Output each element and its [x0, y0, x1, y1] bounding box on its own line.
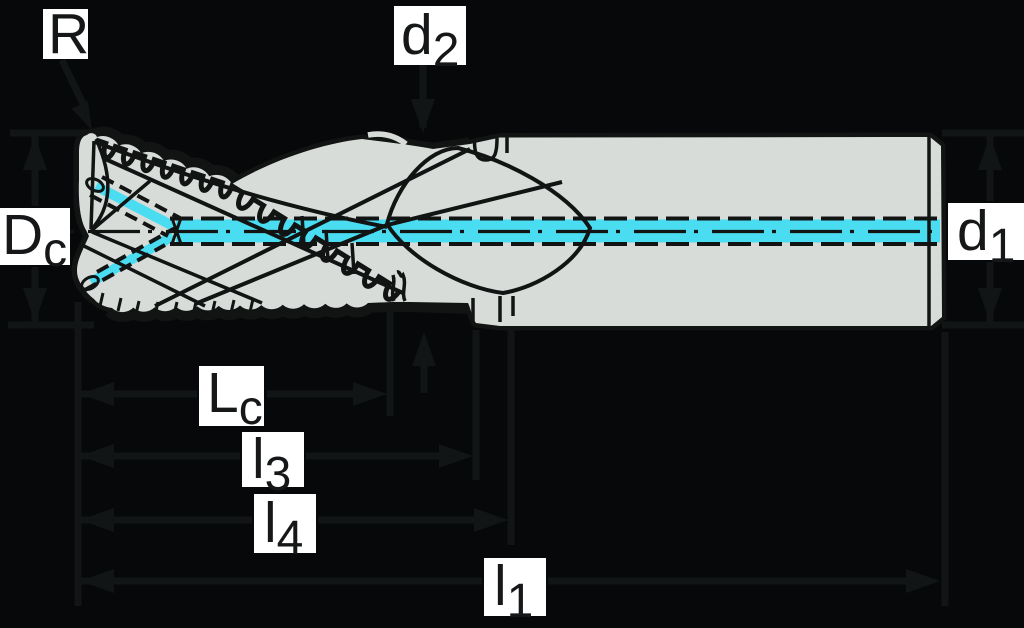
svg-text:R: R [48, 2, 89, 66]
label Dc [0, 208, 70, 265]
thick edge band neck dip [395, 144, 470, 150]
dimension d1 vertical arrows [987, 136, 994, 201]
neck relief groove top [475, 138, 498, 160]
serrated cutting edge garland [96, 140, 400, 299]
end gash line up [92, 181, 150, 230]
coolant bore tip mark [172, 218, 181, 244]
serration tooth tails [302, 216, 304, 245]
label Lc [199, 366, 264, 426]
dimension Dc vertical arrows [32, 136, 39, 206]
label d1 [948, 203, 1024, 260]
last serration groove squiggles [393, 275, 394, 301]
extension tick top-left for Dc [10, 130, 102, 137]
dimension line Lc [80, 391, 197, 398]
coolant hole ellipse lower [79, 274, 100, 292]
end mill body fill [77, 133, 942, 326]
shank end chamfer line [927, 136, 931, 327]
extension tick bottom-right for d1 [942, 322, 1024, 329]
dashed outline coolant channel lower [97, 227, 177, 272]
dimension line l4 [80, 517, 252, 524]
thick edge band top serration [96, 137, 232, 184]
end tooth bowed face line [91, 139, 108, 230]
extension line right (shank end) [942, 332, 949, 606]
coolant hole ellipse upper [84, 176, 105, 194]
label l3 [242, 432, 304, 487]
neck relief groove bottom [471, 298, 475, 324]
coolant channel upper (cyan) [96, 186, 173, 226]
dashed outline coolant channel upper [102, 177, 180, 218]
end gash line down long [92, 232, 262, 303]
extension line l4 [508, 330, 515, 545]
leader arrow for R [62, 60, 84, 106]
flute edge sliver above neck [368, 134, 406, 144]
dashed coolant bore bottom line [170, 242, 940, 246]
flute helix line rising long [155, 149, 470, 306]
end tooth face line [91, 141, 94, 229]
end gash line down short [84, 246, 205, 306]
flute helix line rising to runout chord [195, 182, 562, 304]
end mill body outline [77, 133, 942, 326]
coolant bore band (cyan) [176, 220, 940, 243]
coolant channel lower (cyan) [91, 236, 173, 282]
dimension d2 down arrow [420, 65, 427, 128]
flute helix line falling to runout vertex [95, 142, 387, 227]
extension tick top-right for d1 [942, 130, 1024, 137]
dimension line l3 [80, 453, 240, 460]
bottom serration tick marks [100, 293, 103, 306]
extension line end of cut length Lc [387, 307, 394, 416]
dimension d2 up arrow below body [421, 360, 428, 393]
label d2 [394, 6, 466, 65]
thick edge band bottom serration [112, 302, 470, 312]
dimension line l1 [80, 578, 482, 585]
label l4 [254, 494, 316, 553]
label l1 [484, 558, 546, 616]
flute runout leaf [387, 148, 590, 293]
dashed coolant bore top line [170, 217, 940, 221]
flute helix line falling long [103, 158, 403, 293]
centerline dash-dot [70, 230, 946, 233]
extension line l3 [473, 330, 480, 480]
extension line left (tool tip) [75, 302, 82, 606]
extension tick bottom-left for Dc [8, 322, 94, 329]
label R [43, 9, 88, 59]
thick edge band left tip [77, 135, 94, 299]
